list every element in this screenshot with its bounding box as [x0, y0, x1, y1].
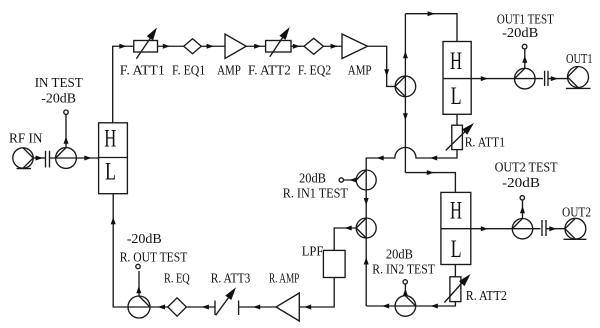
- attenuator R.ATT3: [215, 292, 239, 316]
- svg-text:F. ATT2: F. ATT2: [248, 64, 291, 79]
- arrow after F.ATT1: [163, 44, 170, 49]
- svg-text:OUT1: OUT1: [566, 52, 593, 67]
- wire F.EQ2 to AMP2: [323, 45, 342, 47]
- equalizer F.EQ1: [184, 39, 202, 54]
- svg-text:R. ATT1: R. ATT1: [465, 135, 505, 150]
- coupler IN TEST tap: [56, 110, 77, 168]
- svg-text:H: H: [450, 198, 462, 225]
- svg-text:H: H: [450, 48, 462, 75]
- arrow down into combiner: [364, 198, 369, 205]
- coupler R.IN2 TEST tap: [395, 280, 416, 317]
- wire AMP1 to F.ATT2: [246, 45, 265, 47]
- coupler OUT2 TEST tap: [512, 196, 532, 239]
- wire C-in to H/L box1: [50, 157, 99, 159]
- arrowhead R.ATT1: [462, 123, 474, 135]
- arrow before F.EQ2: [293, 44, 300, 49]
- arrow up OUT2 TEST tap: [520, 206, 525, 213]
- arrow on top jog: [428, 11, 435, 16]
- equalizer F.EQ2: [304, 38, 323, 54]
- coupler OUT1 TEST tap: [515, 44, 536, 89]
- capacitor C-out2 DC block: [542, 220, 546, 236]
- wire box2 to OUT1 cap: [471, 78, 543, 80]
- arrowhead F.ATT2: [279, 27, 289, 40]
- arrowhead R.ATT2: [459, 274, 471, 286]
- capacitor C-out1 DC block: [545, 71, 548, 86]
- svg-text:20dB: 20dB: [386, 247, 413, 262]
- svg-text:-20dB: -20dB: [41, 92, 76, 107]
- wire splitter to H/L box3: [405, 173, 455, 193]
- wire R.ATT3 to R.EQ: [186, 306, 215, 308]
- arrow before R.EQ: [202, 305, 209, 310]
- arrow up into box1 L: [111, 217, 116, 224]
- svg-text:R. AMP: R. AMP: [269, 272, 299, 287]
- svg-text:RF IN: RF IN: [9, 132, 43, 147]
- wire R.ATT1 return with hop: [366, 147, 457, 306]
- svg-text:L: L: [451, 236, 462, 263]
- coupler R.OUT TEST tap: [128, 264, 150, 318]
- svg-text:F. ATT1: F. ATT1: [120, 64, 165, 79]
- arrow into R.AMP: [304, 305, 311, 310]
- wire cap to OUT1: [548, 78, 568, 80]
- arrow into OUT1: [551, 76, 558, 81]
- wire LPF to R.AMP: [299, 278, 334, 308]
- arrow box3 output: [481, 226, 488, 231]
- connector OUT2: [564, 218, 587, 239]
- wire splitter main vertical: [404, 14, 406, 173]
- equalizer R.EQ: [168, 298, 187, 316]
- wire splitter top to H/L box2: [405, 14, 457, 42]
- filter LPF: [323, 250, 345, 277]
- wire cap to OUT2: [546, 228, 565, 230]
- svg-text:R. EQ: R. EQ: [164, 272, 190, 287]
- wire AMP2 to splitter: [368, 46, 396, 86]
- arrow up IN TEST tap: [64, 137, 69, 144]
- wire R.EQ to box1 L: [113, 194, 168, 307]
- svg-text:L: L: [105, 158, 116, 185]
- attenuator F.ATT2: [266, 32, 291, 57]
- arrow into H/L box1: [84, 156, 91, 161]
- wire J1 to C-in: [33, 157, 45, 159]
- splitter/combiner U-split: [395, 76, 416, 97]
- arrow before R.OUT coupler: [158, 305, 165, 310]
- svg-text:AMP: AMP: [217, 64, 241, 79]
- amplifier R.AMP: [276, 293, 299, 321]
- svg-text:-20dB: -20dB: [127, 232, 162, 247]
- arrow up OUT1 TEST tap: [522, 56, 527, 63]
- wire box1 top to forward chain: [113, 46, 134, 123]
- arrow down AMP2 output: [384, 69, 389, 76]
- svg-text:F. EQ1: F. EQ1: [172, 64, 205, 79]
- arrow into C-in: [36, 156, 43, 161]
- svg-text:R. ATT3: R. ATT3: [211, 272, 251, 287]
- arrow up into combiner: [364, 257, 369, 264]
- svg-text:AMP: AMP: [348, 64, 372, 79]
- diplexer box1 H/L: [99, 123, 128, 194]
- arrow before AMP2: [331, 44, 338, 49]
- svg-text:H: H: [104, 125, 116, 152]
- arrow return left 2: [377, 156, 384, 161]
- capacitor C-in DC block: [46, 151, 50, 168]
- arrow box2 output: [481, 76, 488, 81]
- attenuator F.ATT1: [134, 35, 158, 59]
- arrow up R.IN2 tap: [403, 289, 408, 296]
- connector OUT1: [566, 67, 591, 89]
- wire F.EQ1 to AMP1: [201, 45, 225, 47]
- svg-text:L: L: [451, 83, 462, 110]
- wire F.ATT1 to F.EQ1: [158, 45, 184, 47]
- arrow into OUT2: [549, 226, 556, 231]
- arrow down to OUT2 branch: [403, 113, 408, 120]
- attenuator R.ATT2: [444, 277, 466, 303]
- svg-text:OUT2: OUT2: [562, 206, 591, 221]
- arrow combiner output: [345, 226, 352, 231]
- svg-text:R. IN1 TEST: R. IN1 TEST: [283, 187, 349, 202]
- coupler R.IN1 TEST tap: [339, 170, 376, 190]
- wire R.AMP to R.ATT3: [239, 306, 276, 308]
- arrow to box3: [427, 170, 434, 175]
- svg-text:R. IN2 TEST: R. IN2 TEST: [372, 263, 435, 278]
- arrow up R.OUT tap: [136, 286, 141, 293]
- attenuator R.ATT1: [446, 125, 471, 150]
- arrowhead F.ATT1: [147, 28, 157, 41]
- combiner U-comb: [356, 218, 376, 238]
- diplexer box2 H/L: [443, 42, 471, 115]
- svg-text:R. OUT TEST: R. OUT TEST: [120, 251, 188, 266]
- wire box2 L to R.ATT1: [456, 114, 458, 125]
- arrow return left 1: [430, 156, 437, 161]
- amplifier AMP2: [342, 34, 368, 59]
- arrowhead R.ATT3: [225, 287, 236, 300]
- wire box3 L to R.ATT2: [454, 265, 456, 277]
- svg-text:R. ATT2: R. ATT2: [466, 289, 507, 304]
- diplexer box3 H/L: [441, 192, 471, 264]
- arrow up to OUT1 branch: [403, 51, 408, 58]
- arrow return2 left 2: [382, 304, 389, 309]
- svg-text:-20dB: -20dB: [502, 26, 538, 41]
- wire box3 to OUT2 cap: [471, 228, 541, 230]
- svg-text:F. EQ2: F. EQ2: [298, 64, 331, 79]
- arrow before AMP1: [207, 44, 214, 49]
- arrow to F.ATT1: [119, 44, 126, 49]
- arrow left R.IN1 tap: [349, 178, 356, 183]
- wire F.ATT2 to F.EQ2: [291, 45, 304, 47]
- connector J1 RF IN: [13, 148, 33, 169]
- svg-text:-20dB: -20dB: [502, 176, 540, 191]
- wire R.ATT2 return: [366, 302, 455, 306]
- svg-text:OUT2 TEST: OUT2 TEST: [495, 160, 558, 175]
- wire combiner to LPF: [334, 228, 356, 250]
- svg-text:LPF: LPF: [302, 245, 324, 260]
- amplifier AMP1: [225, 34, 246, 59]
- svg-text:20dB: 20dB: [299, 172, 326, 187]
- arrow return2 left 1: [431, 304, 438, 309]
- svg-text:IN TEST: IN TEST: [35, 76, 83, 91]
- arrow before F.ATT2: [254, 44, 261, 49]
- arrow after R.AMP: [253, 305, 260, 310]
